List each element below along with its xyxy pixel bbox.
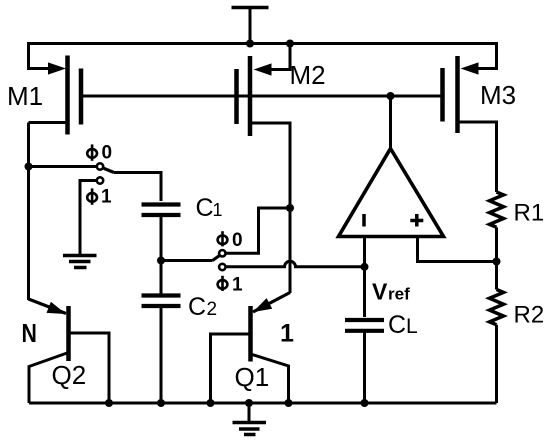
wire: switch S1 to C1 top <box>114 173 161 202</box>
node: junction dot M2 source tap <box>286 40 294 48</box>
node: dot Q2 base <box>105 399 113 407</box>
node: junction dot Vref <box>361 263 369 271</box>
svg-text:0: 0 <box>232 230 243 251</box>
svg-text:N: N <box>22 319 37 349</box>
label phi1 (middle switch) <box>218 274 243 295</box>
resistor R1 <box>490 192 504 262</box>
svg-text:Q2: Q2 <box>52 360 87 390</box>
svg-text:1: 1 <box>213 200 223 220</box>
svg-text:C: C <box>188 293 206 321</box>
label phi1 (left switch) <box>87 187 112 208</box>
svg-text:M2: M2 <box>290 60 326 90</box>
label M3 <box>480 80 516 110</box>
transistor M3 <box>443 44 497 193</box>
svg-text:Q1: Q1 <box>235 362 270 392</box>
node: dot CL bottom <box>361 399 369 407</box>
wire: common gate line M1-M2-M3 <box>81 95 443 98</box>
wire: C2 top from node <box>160 261 163 296</box>
svg-text:M3: M3 <box>480 80 516 110</box>
wire: C2 bottom to ground rail <box>160 306 163 403</box>
switch S2 phi1 contact <box>219 264 225 270</box>
wire: C1 bottom to node <box>160 215 163 261</box>
svg-text:ref: ref <box>388 285 410 304</box>
wire: op-amp non-inverting input to R1/R2 node <box>418 237 497 262</box>
resistor R2 <box>490 262 504 404</box>
label C2 <box>188 293 217 321</box>
switch S2 phi0 contact <box>161 208 290 261</box>
label 1 (Q1 emitter ratio) <box>280 320 294 348</box>
node: junction dot left rail to switch <box>25 163 33 171</box>
label M2 <box>290 60 326 90</box>
label Vref <box>372 279 410 305</box>
node: dot Q1 collector <box>285 399 293 407</box>
wire: top supply rail <box>29 44 497 71</box>
svg-text:0: 0 <box>102 143 113 164</box>
svg-text:C: C <box>196 194 214 222</box>
wire: CL bottom to ground rail <box>363 331 366 403</box>
label R1 <box>514 200 545 227</box>
power supply symbol <box>232 8 269 44</box>
label N (Q2 emitter ratio) <box>22 319 37 349</box>
label phi0 (left switch) <box>87 143 112 164</box>
op-amp U1 <box>339 149 444 237</box>
node: junction dot gate line / op-amp output <box>387 92 395 100</box>
label C1 <box>196 194 223 222</box>
svg-text:1: 1 <box>232 274 243 295</box>
transistor Q1 <box>211 208 291 403</box>
ground (left, under phi1) <box>63 256 97 268</box>
label Q1 <box>235 362 270 392</box>
wire: op-amp inverting input to Vref node <box>363 237 366 267</box>
label CL <box>388 311 418 339</box>
transistor M1 <box>29 56 82 135</box>
wire: op-amp output to gate line <box>389 96 392 149</box>
label M1 <box>7 81 43 111</box>
svg-text:1: 1 <box>101 187 112 208</box>
capacitor C1 <box>142 205 181 216</box>
label R2 <box>514 302 545 329</box>
capacitor C2 <box>142 296 181 307</box>
switch S1 phi0 contact <box>29 163 115 172</box>
svg-text:1: 1 <box>280 320 294 348</box>
node: dot C2 bottom <box>157 399 165 407</box>
transistor Q2 <box>29 299 110 403</box>
node: junction dot C1/C2/switch <box>157 257 165 265</box>
switch S1 phi1 contact <box>80 177 103 254</box>
wire: bottom ground rail <box>29 402 497 405</box>
svg-text:C: C <box>388 311 406 339</box>
node: junction dot R1/R2 <box>493 258 501 266</box>
transistor M2 <box>237 44 291 209</box>
svg-text:V: V <box>372 279 388 305</box>
node: dot ground tap <box>245 399 253 407</box>
svg-text:L: L <box>406 315 418 338</box>
capacitor CL <box>345 320 384 331</box>
svg-text:2: 2 <box>207 299 218 320</box>
ground (bottom center) <box>233 403 267 435</box>
svg-text:R2: R2 <box>514 302 545 329</box>
wire: phi1 contact to Vref node with hop over M2 drain line <box>226 261 365 267</box>
svg-text:R1: R1 <box>514 200 545 227</box>
label Q2 <box>52 360 87 390</box>
node: junction dot M2 drain / switch S2 <box>286 204 294 212</box>
node: dot Q1 base <box>207 399 215 407</box>
wire: left rail (M1 drain down to Q2 emitter) <box>27 123 30 301</box>
node: VDD junction dot at supply stem <box>246 40 254 48</box>
svg-text:M1: M1 <box>7 81 43 111</box>
label phi0 (middle switch) <box>218 230 243 251</box>
wire: Vref node down to CL <box>363 267 366 317</box>
